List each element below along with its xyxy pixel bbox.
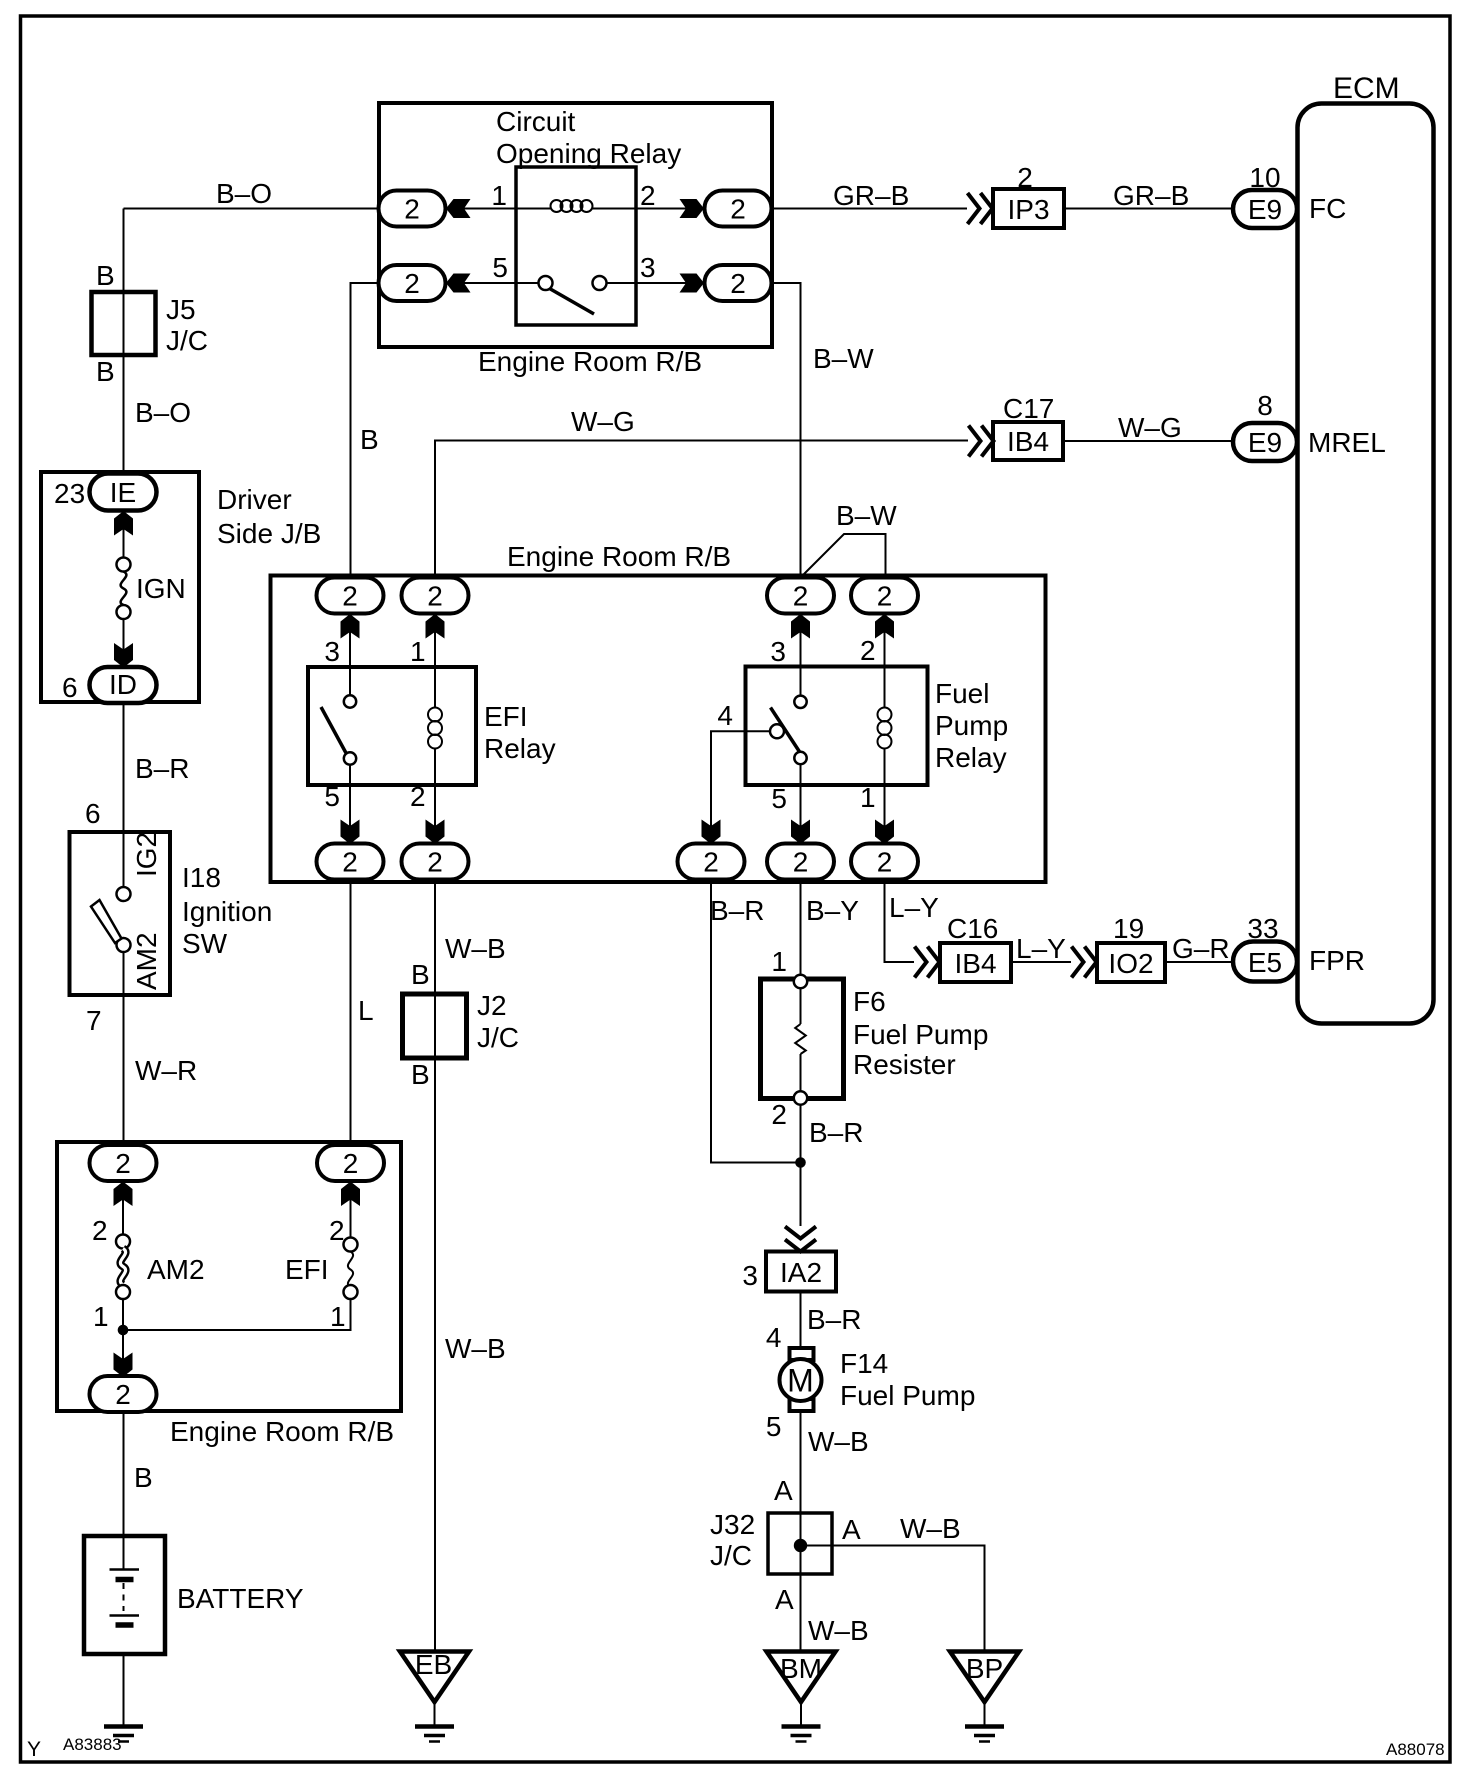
svg-text:A88078: A88078 — [1386, 1740, 1445, 1759]
ground BM — [782, 1727, 821, 1742]
svg-text:B–O: B–O — [216, 178, 272, 209]
connector oval 2 COR top-right — [705, 191, 772, 227]
svg-text:Engine Room R/B: Engine Room R/B — [507, 541, 731, 572]
wire B-R to ignition switch — [123, 703, 125, 888]
FP switch blade — [771, 708, 801, 753]
svg-text:W–B: W–B — [900, 1513, 961, 1544]
arrow down EFI pin5 — [341, 820, 360, 845]
svg-text:3: 3 — [770, 636, 786, 667]
svg-text:BP: BP — [966, 1653, 1003, 1684]
svg-text:F14: F14 — [840, 1348, 888, 1379]
svg-text:E5: E5 — [1248, 947, 1282, 978]
wire GR-B from COR to shield connector — [771, 208, 967, 210]
wire COR switch row left — [446, 282, 539, 284]
svg-text:Engine Room R/B: Engine Room R/B — [170, 1416, 394, 1447]
wire G-R to E5 — [1165, 961, 1233, 963]
svg-text:MREL: MREL — [1308, 427, 1386, 458]
svg-text:6: 6 — [85, 798, 101, 829]
arrow up FP pin2 — [875, 614, 894, 639]
Driver Side J/B box — [41, 472, 199, 702]
FP switch contact left — [770, 724, 784, 738]
wire FP pin3 into relay — [800, 614, 802, 696]
svg-text:B–R: B–R — [807, 1304, 861, 1335]
svg-text:2: 2 — [92, 1215, 108, 1246]
svg-text:BM: BM — [780, 1653, 822, 1684]
wire EB to ground — [434, 1702, 436, 1726]
Engine Room R/B middle box — [271, 576, 1046, 883]
junction connector J32 J/C — [768, 1513, 832, 1574]
arrow left into COR top-left oval — [446, 199, 471, 218]
svg-text:G–R: G–R — [1172, 933, 1230, 964]
junction dot B-R — [795, 1157, 806, 1168]
arrow up EFI pin3 — [341, 614, 360, 639]
wire BM to ground — [800, 1702, 802, 1726]
svg-text:W–G: W–G — [571, 406, 635, 437]
svg-text:W–B: W–B — [808, 1615, 869, 1646]
wire IE to IGN fuse — [123, 511, 125, 558]
connector oval ID — [90, 667, 157, 703]
shield chevrons IA2 — [785, 1227, 816, 1252]
svg-text:W–R: W–R — [135, 1055, 197, 1086]
svg-text:B: B — [134, 1462, 153, 1493]
svg-text:C17: C17 — [1003, 393, 1054, 424]
wire EFI pin1 into coil — [434, 614, 436, 708]
svg-text:FC: FC — [1309, 193, 1346, 224]
wire COR coil row left — [446, 208, 551, 210]
svg-text:B–Y: B–Y — [806, 895, 859, 926]
svg-text:3: 3 — [324, 636, 340, 667]
svg-text:B: B — [96, 356, 115, 387]
connector oval E5 FPR — [1233, 942, 1297, 982]
wire F6 to junction — [800, 1105, 802, 1227]
arrow down FP pin5 — [791, 820, 810, 845]
svg-text:J/C: J/C — [710, 1540, 752, 1571]
connector box IB4 C16 — [940, 943, 1011, 982]
arrow left into COR bottom-left oval — [446, 274, 471, 293]
wire battery to ground — [123, 1654, 125, 1726]
fusible link AM2 — [116, 1235, 130, 1300]
connector oval 2 EFI pin5 bottom — [317, 844, 384, 880]
EFI switch contact top — [344, 695, 356, 707]
connector box IA2 — [766, 1252, 836, 1292]
ground triangle BM — [767, 1652, 836, 1703]
svg-text:B–R: B–R — [710, 895, 764, 926]
F6 pin 2 contact — [794, 1091, 807, 1104]
svg-text:SW: SW — [182, 928, 228, 959]
wire B-R to fuel pump — [800, 1292, 802, 1349]
arrow down EFI pin2 — [426, 820, 445, 845]
connector oval 2 FP pin4 bottom — [678, 844, 745, 880]
svg-text:ECM: ECM — [1333, 72, 1400, 105]
COR switch blade — [550, 289, 595, 315]
wire W-B branch to BP — [801, 1546, 985, 1652]
svg-text:Resister: Resister — [853, 1049, 956, 1080]
wire B-O vertical to J5 — [123, 209, 125, 474]
connector oval 2 EFI pin2 bottom — [402, 844, 469, 880]
connector oval 2 COR top-left — [379, 191, 446, 227]
svg-text:A: A — [775, 1584, 794, 1615]
EFI relay box — [308, 667, 476, 785]
svg-text:ID: ID — [109, 669, 137, 700]
FP switch contact bottom — [794, 752, 806, 764]
svg-text:B: B — [411, 1059, 430, 1090]
svg-text:IGN: IGN — [136, 573, 186, 604]
ignition switch contacts — [117, 887, 131, 901]
svg-text:6: 6 — [62, 672, 78, 703]
svg-text:5: 5 — [324, 781, 340, 812]
Engine Room R/B top box (circuit opening relay) — [379, 103, 772, 347]
svg-text:A: A — [774, 1475, 793, 1506]
wire into EFI fuse — [350, 1181, 352, 1238]
svg-text:1: 1 — [93, 1301, 109, 1332]
svg-text:B–R: B–R — [809, 1117, 863, 1148]
connector oval 2 FP pin3 top — [767, 578, 834, 614]
wire W-G to E9 — [1063, 440, 1233, 442]
junction dot J32 — [794, 1539, 807, 1552]
wire B-R from FP pin4 oval to junction — [711, 880, 801, 1163]
svg-text:IE: IE — [110, 477, 136, 508]
svg-text:B: B — [360, 424, 379, 455]
svg-text:B–W: B–W — [813, 343, 874, 374]
wire into resistor element — [800, 988, 802, 1024]
svg-text:Driver: Driver — [217, 484, 292, 515]
svg-text:2: 2 — [1017, 162, 1033, 193]
svg-text:B: B — [96, 260, 115, 291]
ignition switch I18 box — [70, 832, 171, 995]
arrow up into IE — [114, 511, 133, 536]
connector oval 2 COR bottom-left — [379, 265, 446, 301]
svg-text:7: 7 — [86, 1005, 102, 1036]
svg-text:GR–B: GR–B — [833, 180, 909, 211]
svg-text:FPR: FPR — [1309, 945, 1365, 976]
arrow down into ID — [114, 643, 133, 668]
wire COR coil row right — [593, 208, 705, 210]
wire EFI fuse to junction — [123, 1299, 351, 1330]
svg-text:5: 5 — [492, 252, 508, 283]
resistor element zigzag — [795, 1024, 806, 1054]
svg-text:B: B — [411, 959, 430, 990]
svg-text:GR–B: GR–B — [1113, 180, 1189, 211]
wire GR-B to E9 — [1064, 208, 1233, 210]
connector oval 2 FP pin5 bottom — [767, 844, 834, 880]
circuit opening relay box — [516, 167, 636, 325]
svg-text:4: 4 — [717, 700, 733, 731]
battery symbol — [110, 1570, 140, 1626]
connector oval 2 COR bottom-right — [705, 265, 772, 301]
battery box — [84, 1536, 165, 1654]
svg-text:2: 2 — [329, 1215, 345, 1246]
COR switch contact left — [539, 276, 553, 290]
connector oval 2 (battery feed) — [90, 1376, 157, 1412]
svg-text:J/C: J/C — [166, 325, 208, 356]
svg-text:IG2: IG2 — [131, 832, 162, 877]
svg-text:L–Y: L–Y — [1016, 933, 1066, 964]
ground EB — [415, 1727, 454, 1742]
svg-text:W–B: W–B — [808, 1426, 869, 1457]
wire into AM2 fuse — [122, 1181, 124, 1235]
svg-text:Circuit: Circuit — [496, 106, 576, 137]
svg-text:Fuel Pump: Fuel Pump — [853, 1019, 988, 1050]
svg-text:EB: EB — [415, 1649, 452, 1680]
svg-text:IB4: IB4 — [1007, 426, 1049, 457]
arrow right into COR bottom-right oval — [680, 274, 705, 293]
arrow up into EFI oval — [341, 1182, 360, 1207]
svg-text:2: 2 — [860, 635, 876, 666]
svg-text:J2: J2 — [477, 990, 507, 1021]
shield chevrons C16 — [915, 947, 940, 978]
wire EFI pin5 down — [349, 765, 351, 844]
connector box IB4 C17 — [993, 422, 1063, 460]
connector oval 2 FP pin1 bottom — [851, 844, 918, 880]
svg-text:BATTERY: BATTERY — [177, 1583, 304, 1614]
ground triangle EB — [400, 1649, 469, 1702]
ECM U1 block — [1298, 104, 1434, 1024]
wire EFI pin3 into relay — [349, 614, 351, 696]
wire below ignition switch — [123, 952, 125, 1146]
connector oval 2 EFI pin3 top — [317, 578, 384, 614]
leader lines B-W — [803, 534, 886, 578]
wire L-Y from FP pin1 to shield — [885, 880, 915, 963]
connector box IO2 — [1097, 943, 1165, 982]
svg-text:J5: J5 — [166, 294, 196, 325]
ground BP — [965, 1727, 1004, 1742]
svg-text:W–B: W–B — [445, 1333, 506, 1364]
svg-text:Relay: Relay — [935, 742, 1007, 773]
svg-text:L–Y: L–Y — [889, 892, 939, 923]
svg-text:Fuel Pump: Fuel Pump — [840, 1380, 975, 1411]
svg-text:IO2: IO2 — [1108, 948, 1153, 979]
svg-text:A83883: A83883 — [63, 1735, 122, 1754]
svg-text:B–O: B–O — [135, 397, 191, 428]
svg-text:Fuel: Fuel — [935, 678, 989, 709]
svg-text:EFI: EFI — [285, 1254, 329, 1285]
svg-text:E9: E9 — [1248, 427, 1282, 458]
fuel pump resistor F6 box — [761, 979, 844, 1099]
wire L from EFI pin5 to bottom box — [350, 880, 352, 1146]
svg-text:Pump: Pump — [935, 710, 1008, 741]
wire B jog from COR bottom-left oval — [351, 283, 380, 578]
Engine Room R/B bottom box — [57, 1142, 401, 1411]
connector oval IE — [90, 474, 157, 511]
wire B-O horizontal — [124, 208, 380, 210]
IGN fuse (circuit breaker) — [117, 558, 131, 620]
arrow up into AM2 oval — [114, 1182, 133, 1207]
svg-text:W–G: W–G — [1118, 412, 1182, 443]
svg-text:B–W: B–W — [836, 500, 897, 531]
FP switch contact top — [794, 696, 806, 708]
svg-text:Relay: Relay — [484, 733, 556, 764]
wire FP pin4 out left and down — [711, 731, 770, 843]
wire B-W from COR down to middle box — [771, 283, 801, 578]
svg-text:F6: F6 — [853, 986, 886, 1017]
connector oval E9 MREL — [1233, 423, 1297, 461]
svg-text:2: 2 — [640, 180, 656, 211]
svg-text:Side J/B: Side J/B — [217, 518, 321, 549]
wire FP pin5 down — [800, 764, 802, 844]
ignition switch blade — [91, 900, 122, 943]
svg-text:L: L — [358, 995, 374, 1026]
fuel pump motor F14 — [780, 1348, 822, 1411]
wire FP pin1 down — [884, 749, 886, 844]
svg-text:Engine Room R/B: Engine Room R/B — [478, 346, 702, 377]
FP relay coil — [878, 708, 892, 749]
svg-text:2: 2 — [771, 1099, 787, 1130]
wire BP to ground — [984, 1702, 986, 1726]
svg-text:1: 1 — [771, 946, 787, 977]
svg-text:1: 1 — [491, 180, 507, 211]
svg-text:5: 5 — [766, 1411, 782, 1442]
svg-text:IP3: IP3 — [1007, 194, 1049, 225]
wire W-G from middle box up and right — [435, 441, 968, 579]
ground triangle BP — [950, 1652, 1019, 1703]
svg-text:Opening Relay: Opening Relay — [496, 138, 681, 169]
svg-text:23: 23 — [54, 478, 85, 509]
svg-text:C16: C16 — [947, 913, 998, 944]
arrow down into battery oval — [114, 1353, 133, 1378]
wire B-Y from FP pin5 to resistor — [800, 880, 802, 976]
F6 pin 1 contact — [794, 975, 807, 988]
ground battery — [104, 1727, 143, 1742]
wire COR switch row right — [607, 282, 705, 284]
wire L-Y between connectors — [1011, 961, 1071, 963]
junction connector J2 J/C — [403, 994, 467, 1058]
svg-text:W–B: W–B — [445, 933, 506, 964]
svg-text:J/C: J/C — [477, 1022, 519, 1053]
svg-text:IA2: IA2 — [780, 1257, 822, 1288]
svg-text:4: 4 — [766, 1322, 782, 1353]
svg-text:1: 1 — [860, 782, 876, 813]
svg-text:AM2: AM2 — [147, 1254, 205, 1285]
svg-text:1: 1 — [410, 636, 426, 667]
svg-text:1: 1 — [330, 1301, 346, 1332]
svg-text:19: 19 — [1113, 913, 1144, 944]
svg-text:M: M — [787, 1363, 814, 1399]
arrow up FP pin3 — [791, 614, 810, 639]
connector oval 2 (EFI fuse top) — [317, 1145, 384, 1181]
connector oval 2 FP pin2 top — [851, 578, 918, 614]
COR switch contact right — [593, 276, 607, 290]
svg-text:2: 2 — [410, 781, 426, 812]
arrow down FP pin4 — [702, 820, 721, 845]
EFI switch blade — [321, 707, 346, 753]
wire resistor to pin 2 — [800, 1054, 802, 1091]
junction connector J5 J/C — [92, 292, 156, 355]
shield chevrons IP3 — [968, 193, 993, 224]
arrow up EFI pin1 — [426, 614, 445, 639]
wire W-B to J32 — [800, 1411, 802, 1652]
svg-text:B–R: B–R — [135, 753, 189, 784]
connector oval 2 EFI pin1 top — [402, 578, 469, 614]
wire W-B from EFI pin2 to EB — [434, 880, 436, 1652]
arrow down FP pin1 — [875, 820, 894, 845]
fuel pump relay box — [746, 667, 928, 786]
svg-text:EFI: EFI — [484, 701, 528, 732]
svg-text:E9: E9 — [1248, 194, 1282, 225]
svg-text:5: 5 — [771, 783, 787, 814]
svg-text:8: 8 — [1257, 390, 1273, 421]
wire FP pin2 into coil — [884, 614, 886, 708]
shield chevrons IO2 — [1072, 947, 1097, 978]
svg-text:IB4: IB4 — [954, 948, 996, 979]
wire IGN fuse to ID — [123, 619, 125, 668]
svg-text:3: 3 — [640, 252, 656, 283]
svg-text:J32: J32 — [710, 1509, 755, 1540]
EFI relay coil — [428, 708, 442, 749]
wire B to battery — [123, 1412, 125, 1569]
svg-text:I18: I18 — [182, 862, 221, 893]
arrow right into COR top-right oval — [680, 199, 705, 218]
EFI switch contact bottom — [344, 752, 356, 764]
shield chevrons IB4 (C17) — [969, 426, 994, 457]
wire EFI pin2 down — [434, 749, 436, 844]
wire AM2 fuse down — [122, 1299, 124, 1377]
svg-text:Y: Y — [27, 1738, 41, 1761]
svg-text:A: A — [842, 1514, 861, 1545]
junction dot — [118, 1325, 129, 1336]
COR relay coil — [551, 200, 593, 212]
connector oval E9 FC — [1233, 190, 1297, 228]
fuse EFI — [344, 1238, 358, 1300]
svg-text:Ignition: Ignition — [182, 896, 272, 927]
svg-text:3: 3 — [742, 1260, 758, 1291]
connector oval 2 (AM2 top) — [90, 1145, 157, 1181]
connector box IP3 — [993, 189, 1064, 228]
svg-text:AM2: AM2 — [131, 932, 162, 990]
